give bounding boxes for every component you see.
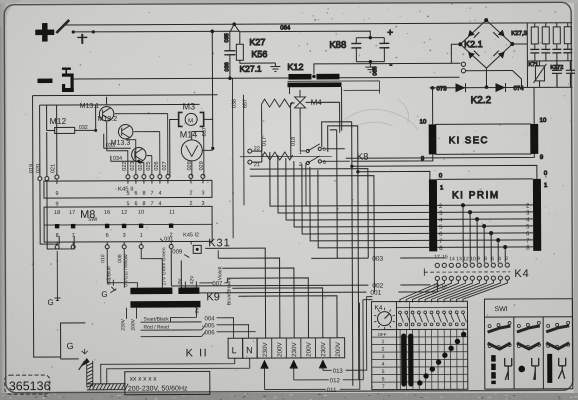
svg-text:11: 11	[169, 209, 175, 215]
svg-text:8: 8	[142, 191, 145, 197]
node: bridge bottom on bus	[485, 85, 489, 89]
wire: loop to K1PRIM left pin0	[358, 171, 430, 179]
wire: K12 riser to pins	[314, 63, 461, 74]
tap junction row 8	[503, 245, 507, 249]
plus terminal symbol	[35, 23, 54, 42]
wire stair bundle to K1 PRIM	[270, 151, 429, 248]
svg-text:K45 I2: K45 I2	[183, 232, 199, 238]
wire: bridge right corner to right bus	[512, 43, 527, 45]
wire: bridge bottom to K2.2 bus	[485, 68, 487, 87]
winding row 4	[437, 218, 533, 220]
svg-text:K27.1: K27.1	[239, 64, 262, 74]
wire 002	[171, 285, 430, 286]
svg-text:K2.2: K2.2	[471, 95, 492, 106]
svg-text:K12: K12	[287, 62, 303, 72]
wire 033	[104, 134, 131, 149]
wire 038	[231, 78, 234, 238]
svg-text:K27,3: K27,3	[511, 31, 527, 37]
svg-text:3: 3	[201, 190, 204, 196]
svg-text:L: L	[232, 345, 237, 355]
svg-text:3: 3	[382, 354, 385, 360]
svg-text:Brun/Brown: Brun/Brown	[226, 279, 232, 305]
svg-text:K9: K9	[206, 291, 220, 303]
svg-text:M13.1: M13.1	[80, 103, 100, 110]
wire: right bus to K1SEC right pin10	[533, 87, 535, 123]
svg-text:230V: 230V	[320, 341, 327, 357]
node: K12 center	[312, 75, 316, 79]
svg-text:011: 011	[327, 388, 337, 394]
svg-text:6: 6	[134, 191, 137, 197]
svg-text:0V: 0V	[194, 307, 200, 314]
tap junction row 3	[468, 210, 472, 214]
SWI column switches	[488, 322, 511, 328]
wire 0V Gul/Yellow	[123, 249, 125, 288]
wire: bridge left corner to K12 pin line	[451, 44, 460, 63]
wire Violett	[217, 250, 219, 258]
svg-text:10: 10	[420, 119, 427, 125]
svg-text:018: 018	[291, 137, 297, 146]
SWI column switches	[517, 321, 540, 327]
connector K45 II	[44, 180, 212, 198]
svg-text:037: 037	[202, 127, 208, 136]
capacitor branch 035	[229, 32, 231, 78]
svg-text:065: 065	[372, 66, 378, 75]
box G	[61, 323, 86, 359]
svg-text:K31: K31	[208, 237, 231, 249]
svg-text:2: 2	[382, 347, 385, 353]
svg-text:009: 009	[172, 249, 183, 255]
wires from L N down to earth	[101, 358, 250, 384]
terminal L	[228, 338, 243, 358]
svg-text:SWI: SWI	[494, 306, 507, 313]
K4 dashed link line	[424, 271, 510, 273]
svg-text:0V/Gul /Yellow: 0V/Gul /Yellow	[123, 254, 129, 287]
wire: right vertical bus	[526, 23, 528, 87]
svg-text:004: 004	[205, 316, 216, 322]
svg-text:OFF: OFF	[378, 332, 387, 337]
svg-text:Violett: Violett	[217, 266, 223, 280]
SWI icon torch 2	[532, 358, 539, 380]
svg-text:M3: M3	[183, 101, 196, 111]
wire 006	[141, 332, 256, 337]
svg-text:6: 6	[106, 233, 109, 239]
svg-text:007: 007	[212, 281, 223, 287]
valve M4	[295, 97, 306, 108]
node on center vertical2	[356, 170, 359, 173]
svg-text:230V: 230V	[291, 341, 298, 357]
work clamp	[62, 67, 74, 92]
electrode holder	[56, 20, 95, 44]
wire: vertical 021 to pin9	[56, 105, 58, 175]
svg-text:5: 5	[126, 191, 129, 197]
diode 073	[455, 83, 465, 92]
SWI icon torch 1	[505, 358, 512, 380]
svg-text:10: 10	[540, 118, 547, 124]
wire 001	[181, 282, 437, 293]
svg-text:027: 027	[162, 161, 168, 170]
svg-text:M12: M12	[50, 116, 67, 126]
wire 011	[264, 303, 360, 390]
svg-text:032: 032	[79, 125, 88, 131]
svg-text:22: 22	[254, 146, 260, 152]
pins 22 21	[248, 149, 252, 153]
K4 pin circles bottom row	[435, 276, 509, 281]
wire: electrode feed	[74, 30, 239, 33]
tap junction row 4	[475, 217, 479, 221]
ground under K88	[365, 62, 375, 73]
svg-text:001: 001	[370, 290, 381, 297]
svg-text:KI PRIM: KI PRIM	[452, 190, 500, 201]
K4 pin circles top row	[435, 263, 509, 268]
svg-text:002: 002	[372, 283, 383, 290]
transformer K1 PRIM	[429, 179, 541, 251]
svg-text:16: 16	[104, 210, 110, 216]
winding row 8	[437, 246, 533, 248]
svg-text:017: 017	[262, 137, 268, 146]
stamp 365136	[5, 375, 50, 394]
winding row 5	[437, 225, 533, 227]
wire 012	[293, 300, 372, 380]
svg-text:G: G	[101, 290, 107, 299]
wire: K12 lower bar drops	[290, 87, 342, 131]
wire: 020 lower run	[40, 132, 75, 249]
wire: K1SEC left pin9 out	[352, 154, 433, 161]
winding row 3	[437, 211, 533, 213]
svg-text:230V: 230V	[262, 342, 269, 358]
svg-text:42V: 42V	[189, 275, 195, 285]
transformer K9	[130, 288, 172, 295]
svg-text:7: 7	[382, 384, 385, 390]
wire to 001	[250, 176, 375, 293]
snubber resistor bank	[527, 23, 572, 61]
plug circles	[38, 177, 42, 181]
capacitor K272	[552, 61, 562, 87]
svg-text:0V: 0V	[177, 278, 183, 285]
chassis ground arrow	[82, 349, 88, 354]
svg-text:6: 6	[382, 377, 385, 383]
selector arrow	[260, 360, 268, 369]
tap junction row 5	[482, 224, 486, 228]
svg-text:G: G	[47, 298, 53, 307]
svg-text:7: 7	[72, 233, 75, 239]
svg-text:012: 012	[330, 378, 341, 384]
wire 034	[111, 156, 139, 162]
wire: K1SEC right pin9 out	[346, 154, 535, 158]
wire: left horizontal y94	[33, 94, 218, 97]
svg-text:17: 17	[69, 210, 75, 216]
wire thin row through pins 21 22	[240, 155, 332, 157]
wire: K88 feed line	[240, 31, 371, 38]
svg-text:200-230V, 50/60Hz: 200-230V, 50/60Hz	[128, 385, 188, 392]
svg-text:18: 18	[54, 210, 60, 216]
svg-text:020: 020	[36, 164, 42, 173]
svg-text:029: 029	[199, 161, 205, 170]
K4 header contacts	[396, 301, 467, 329]
wire: minus rail	[73, 77, 288, 80]
winding row 7	[437, 239, 533, 241]
svg-text:K272: K272	[550, 65, 563, 71]
SWI icon solid bar	[547, 354, 552, 383]
wires to voltage terminal columns	[205, 248, 337, 339]
wire 031	[160, 239, 172, 253]
svg-text:013: 013	[333, 369, 344, 375]
svg-text:12: 12	[463, 256, 469, 262]
svg-text:1: 1	[382, 339, 385, 345]
svg-text:7: 7	[150, 191, 153, 197]
svg-text:3: 3	[123, 233, 126, 239]
wire Bla/Blue	[107, 249, 137, 288]
rectifier bridge K2.1	[458, 18, 514, 68]
node: junction at x213	[210, 30, 214, 34]
hatched earth bar	[87, 361, 129, 390]
svg-text:230V: 230V	[121, 318, 127, 330]
wire: K2.2 bus down to K1SEC pin10	[432, 88, 434, 124]
svg-text:019: 019	[29, 164, 35, 173]
svg-text:K2.1: K2.1	[464, 39, 483, 49]
K4 selector bars	[401, 333, 406, 386]
svg-text:006: 006	[205, 330, 216, 336]
svg-text:-: -	[389, 60, 392, 70]
voltage terminal strip	[257, 338, 345, 358]
svg-text:xx x x x x: xx x x x x	[130, 376, 158, 383]
minus terminal symbol	[37, 79, 52, 84]
tap junction row 2	[461, 203, 465, 207]
wire: minus rail continuation after K12	[339, 76, 459, 79]
SWI icon dot	[518, 366, 525, 373]
transistor leads to connector	[107, 114, 168, 175]
svg-text:10: 10	[470, 256, 476, 262]
svg-text:025: 025	[146, 161, 152, 170]
svg-text:Blå/Blue: Blå/Blue	[105, 266, 112, 285]
SWI icon torch 3	[558, 358, 566, 379]
svg-text:073: 073	[437, 86, 448, 92]
K4 grid	[372, 329, 468, 389]
svg-text:2: 2	[189, 190, 192, 196]
svg-text:5: 5	[323, 147, 326, 153]
svg-text:365136: 365136	[9, 379, 51, 393]
svg-text:035: 035	[224, 33, 230, 42]
node: top rail tap	[232, 22, 236, 26]
rating plate box	[125, 371, 210, 394]
K9 top taps	[185, 281, 196, 287]
switch table SWI	[484, 299, 572, 389]
svg-text:028: 028	[187, 161, 193, 170]
svg-text:K88: K88	[329, 40, 346, 51]
winding row 6	[437, 232, 533, 234]
svg-text:SWI: SWI	[88, 217, 97, 223]
svg-text:M13.2: M13.2	[98, 116, 118, 123]
svg-text:17V Grön/ Green: 17V Grön/ Green	[161, 247, 167, 285]
svg-text:064: 064	[280, 25, 291, 31]
SWI column switches	[547, 321, 570, 327]
node: left end lower bus	[431, 86, 435, 90]
svg-text:4: 4	[382, 362, 385, 368]
node: on minus rail	[228, 77, 231, 80]
capacitor bank K88	[351, 36, 389, 64]
capacitor at right edge	[566, 61, 575, 87]
K9 bottom taps	[126, 308, 136, 319]
K4 position dots	[417, 332, 467, 386]
svg-text:9: 9	[55, 191, 58, 197]
svg-text:M14: M14	[180, 129, 198, 139]
wire: pins to K1SEC right riser	[465, 70, 521, 87]
wire: left vertical 019	[33, 96, 61, 358]
winding row 2	[437, 204, 533, 206]
pin circles 065	[461, 62, 465, 66]
wire 013	[323, 297, 373, 371]
varistor K71	[533, 61, 546, 87]
svg-text:14: 14	[449, 256, 455, 262]
svg-text:K4: K4	[514, 268, 530, 280]
wire: loop to K1PRIM right pin0	[352, 165, 537, 179]
svg-text:024: 024	[138, 161, 144, 170]
svg-text:036: 036	[224, 62, 230, 71]
svg-text:KI SEC: KI SEC	[449, 135, 489, 146]
wire 007	[199, 278, 227, 283]
svg-text:021: 021	[50, 164, 56, 173]
wire 17V Gron/Green	[141, 249, 162, 288]
terminal N	[243, 338, 258, 358]
wire: lower bus K2.2	[430, 86, 573, 89]
svg-text:200V: 200V	[335, 341, 342, 357]
svg-text:G: G	[67, 341, 74, 351]
svg-text:13: 13	[456, 256, 462, 262]
svg-text:K56: K56	[251, 49, 267, 59]
resistor K56 body	[236, 44, 243, 60]
svg-text:5: 5	[382, 369, 385, 375]
svg-text:2: 2	[299, 162, 302, 168]
svg-text:005: 005	[205, 323, 216, 329]
connector M8	[44, 206, 212, 242]
wire: left vertical 020	[39, 105, 41, 176]
wire: vertical from electrode node down to M14	[211, 31, 214, 148]
svg-text:657: 657	[243, 99, 249, 108]
svg-text:008: 008	[117, 254, 123, 263]
wire to 003	[250, 169, 368, 259]
svg-text:1: 1	[140, 233, 143, 239]
switch table K4	[371, 301, 467, 389]
transformer K1 SEC	[429, 124, 539, 154]
svg-text:200V: 200V	[306, 341, 313, 357]
tap junction row 7	[496, 238, 500, 242]
node on center vertical	[350, 165, 353, 168]
svg-text:038: 038	[232, 99, 238, 108]
svg-text:12: 12	[121, 210, 127, 216]
wire 032 node	[94, 129, 97, 132]
wire: K12 lower bar outline	[287, 81, 379, 94]
wire 657	[243, 95, 245, 205]
tap junction row 6	[489, 231, 493, 235]
svg-text:+: +	[387, 28, 393, 39]
svg-text:M: M	[188, 118, 193, 124]
rotary switch symbol	[377, 312, 391, 326]
wire: split from rail to K27 branches	[230, 24, 240, 32]
svg-text:031: 031	[164, 237, 173, 243]
svg-text:10: 10	[138, 210, 144, 216]
wire: left horizontal y104	[40, 103, 200, 106]
wire mid vertical C	[330, 130, 338, 259]
SWI icon dashed bar	[491, 355, 496, 384]
resistor K56 branch	[240, 32, 276, 63]
selector arrow	[290, 359, 298, 368]
wire long vertical B	[328, 126, 359, 380]
svg-text:022: 022	[122, 162, 128, 171]
svg-text:010: 010	[100, 254, 106, 263]
wires K4 pins down to switch table	[400, 280, 508, 302]
wire from 22 to loop	[252, 145, 262, 162]
svg-text:200V: 200V	[131, 318, 137, 330]
relay K12 contact bars	[288, 74, 311, 80]
svg-text:K71: K71	[528, 62, 538, 68]
ground under K27.1	[270, 63, 280, 72]
svg-text:K27: K27	[249, 37, 265, 47]
wire: top positive rail	[63, 23, 572, 25]
svg-text:023: 023	[130, 161, 136, 170]
svg-text:200V: 200V	[277, 342, 284, 358]
svg-text:074: 074	[514, 86, 525, 92]
selector arrow	[319, 359, 327, 368]
svg-text:N: N	[246, 345, 253, 355]
diode 074	[495, 83, 505, 92]
svg-text:026: 026	[154, 161, 160, 170]
svg-text:21: 21	[254, 162, 260, 168]
svg-text:034: 034	[113, 156, 122, 162]
resistor 017/018 loop	[262, 110, 291, 158]
capacitor C near K27	[224, 51, 235, 55]
svg-text:6: 6	[323, 160, 326, 166]
svg-text:003: 003	[372, 256, 383, 263]
svg-text:4: 4	[158, 191, 161, 197]
wire 003	[311, 257, 445, 260]
component box K31 aux	[193, 245, 201, 253]
svg-text:K II: K II	[186, 347, 209, 359]
svg-text:8: 8	[56, 233, 59, 239]
svg-text:K8: K8	[357, 152, 369, 163]
wire long vertical A	[322, 122, 353, 386]
